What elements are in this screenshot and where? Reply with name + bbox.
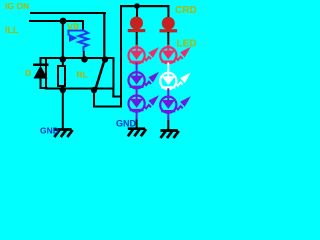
LED5 white [160,73,191,90]
ground chain2 [161,131,179,139]
wire CRD2 drop from feed corner [167,5,169,18]
relay coil [58,66,65,86]
svg-text:LED: LED [177,39,197,50]
wire CRD1 stem from feed [136,6,138,19]
wire bottom edge extension to diode [40,87,48,89]
wire VR bottom to relay pin [83,51,85,60]
wire coil top stub [62,59,64,67]
LED4 crimson [160,47,191,64]
node coil top pin dot [60,56,66,62]
wire LED3 to ground (purple then black) [136,111,138,120]
svg-text:CRD: CRD [175,5,197,16]
wire ILL horizontal [29,20,84,22]
wire LED2 to LED3 [136,88,138,100]
wire IG ON horizontal [30,12,106,14]
wire CRD1 to LED1 (pierces ring) [136,32,138,46]
CRD2 current regulating diode [160,17,178,33]
svg-text:VR: VR [67,22,80,32]
LED1 pink [129,47,160,64]
svg-text:IG ON: IG ON [5,1,29,11]
wire switch output pin down [93,89,95,108]
wire CRD2 to LED4 (pierces ring) [167,32,169,46]
svg-text:ILL: ILL [5,25,19,35]
ground chain1 [128,129,146,137]
CRD1 current regulating diode [128,17,146,33]
wire box corner down [112,89,114,98]
wire coil bottom stub [62,85,64,90]
node VR pin dot [81,56,87,62]
VR wiper arrow head [69,34,78,42]
LED3 purple [129,95,160,112]
wire corner horizontal to main vertical [112,96,122,98]
wire LED6 to ground (purple then black) [167,112,169,121]
LED6 purple [160,96,191,113]
wire diode bottom stub [40,78,42,89]
svg-text:GND: GND [40,126,59,136]
relay RL box [46,58,114,89]
wire IG ON vertical drop to relay switch [103,12,105,59]
wire diode top stub [40,57,42,65]
ground relay [54,130,72,138]
wire LED5 to LED6 (purple) [167,88,169,100]
node switch output pin dot [91,87,97,93]
wire LED1 to LED2 [136,63,138,77]
wire top edge extension to diode [40,57,48,59]
wire relay ground stem [62,89,64,129]
node switch common pin dot [102,56,108,62]
node feed junction dot [134,3,140,9]
svg-text:RL: RL [77,70,88,80]
node coil bottom pin dot [60,87,66,93]
wire ILL vertical to relay coil pin [62,21,64,59]
relay switch blade [96,60,105,88]
diode triangle [34,66,48,79]
diode cathode bar [33,64,49,67]
wire output horizontal to main vertical [93,106,122,108]
wire top feed horizontal [120,5,170,7]
svg-text:GND: GND [116,119,137,129]
wire main feed vertical [120,5,122,108]
wire ILL corner down to VR [82,20,84,30]
node ILL junction dot [60,18,67,25]
svg-text:D: D [25,68,31,78]
LED2 purple [129,72,160,89]
VR variable resistor (blue) [69,31,89,52]
wire LED4 to LED5 (white) [167,63,169,78]
